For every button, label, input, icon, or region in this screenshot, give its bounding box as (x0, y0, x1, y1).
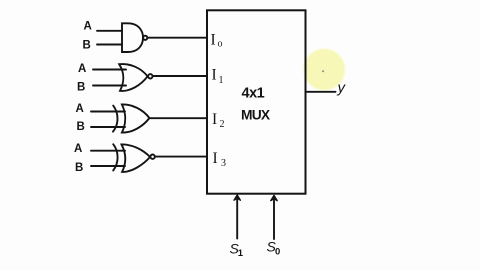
svg-text:MUX: MUX (241, 108, 271, 123)
svg-text:o: o (218, 39, 223, 50)
svg-text:I: I (213, 150, 218, 167)
svg-text:I: I (211, 31, 216, 48)
svg-text:1: 1 (219, 75, 224, 86)
svg-text:A: A (76, 103, 84, 115)
svg-text:B: B (77, 82, 85, 94)
svg-text:3: 3 (221, 158, 226, 169)
svg-text:4x1: 4x1 (242, 86, 265, 102)
svg-text:y: y (337, 80, 347, 97)
svg-text:A: A (78, 63, 86, 75)
svg-text:B: B (83, 40, 91, 52)
svg-text:2: 2 (220, 119, 225, 130)
svg-text:B: B (77, 121, 85, 133)
svg-text:I: I (212, 111, 217, 128)
svg-text:A: A (84, 21, 92, 33)
svg-text:1: 1 (238, 248, 244, 259)
svg-text:B: B (75, 162, 83, 174)
svg-text:I: I (212, 67, 217, 84)
svg-text:0: 0 (275, 247, 280, 258)
svg-text:A: A (74, 143, 82, 155)
